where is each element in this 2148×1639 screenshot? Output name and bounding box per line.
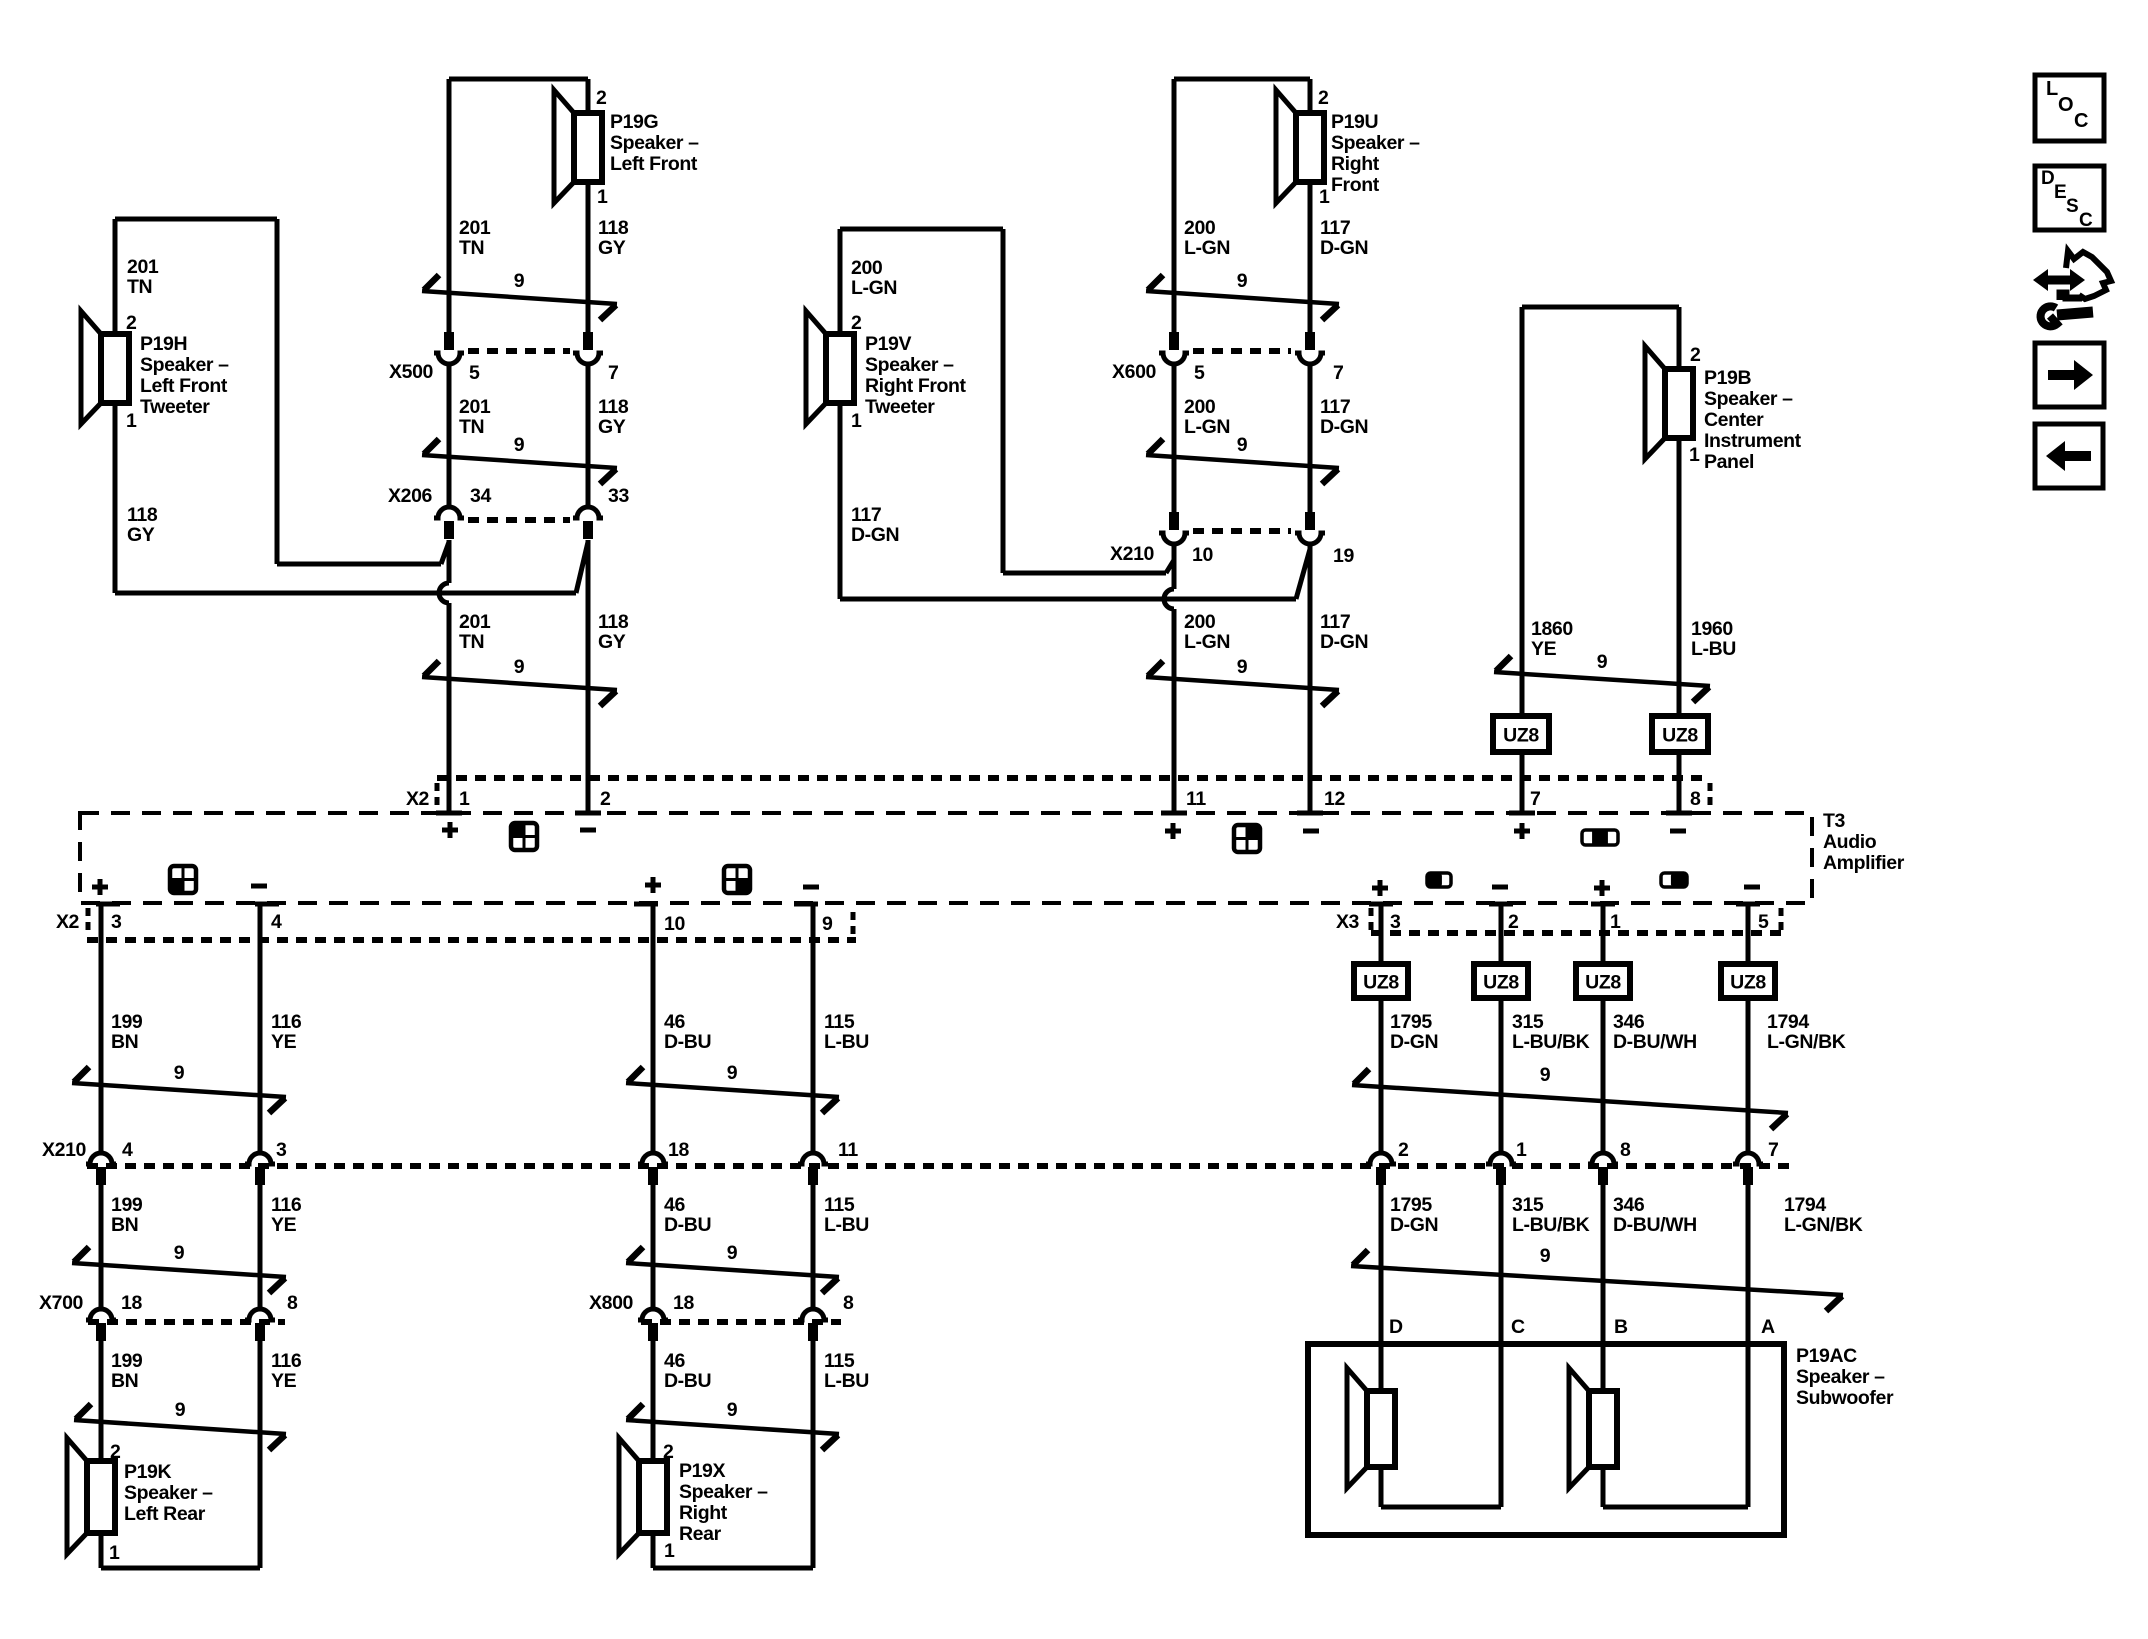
svg-text:TN: TN bbox=[459, 237, 484, 259]
svg-text:9: 9 bbox=[727, 1242, 738, 1264]
svg-text:P19B: P19B bbox=[1704, 367, 1751, 389]
UZ8 option box (315) bbox=[1474, 964, 1528, 998]
wire 199 BN X700-18 to P19K pin2 bbox=[99, 1341, 104, 1461]
back arrow icon box bbox=[2035, 424, 2103, 488]
svg-text:2: 2 bbox=[110, 1441, 121, 1463]
svg-text:9: 9 bbox=[1237, 656, 1248, 678]
svg-text:9: 9 bbox=[174, 1062, 185, 1084]
forward arrow icon box bbox=[2035, 343, 2104, 407]
wire 46 D-BU X210-18 to X800-18 bbox=[651, 1185, 656, 1307]
svg-text:L-BU/BK: L-BU/BK bbox=[1512, 1214, 1590, 1236]
connector X210 pin 10 bbox=[1169, 512, 1179, 530]
wire 1794 L-GN/BK UZ8 to X210-7 bbox=[1746, 998, 1751, 1151]
svg-text:12: 12 bbox=[1324, 788, 1345, 810]
svg-text:18: 18 bbox=[121, 1292, 142, 1314]
svg-text:D-GN: D-GN bbox=[1390, 1031, 1438, 1053]
wire 115 L-BU X2-9 to X210-11 bbox=[811, 903, 816, 1151]
connector X210 pin 19 bbox=[1305, 512, 1315, 530]
svg-text:Right Front: Right Front bbox=[865, 375, 967, 397]
P19K box bottom edge wire bbox=[99, 1533, 104, 1568]
wire 1795 D-GN X3-3 to UZ8 bbox=[1379, 903, 1384, 964]
speaker P19K symbol bbox=[67, 1438, 87, 1554]
svg-text:Speaker –: Speaker – bbox=[679, 1481, 768, 1503]
shield symbol 9 (rear right pair, row A) bbox=[626, 1083, 839, 1097]
wire 201 TN X500-5 to X206-34 bbox=[447, 365, 452, 505]
svg-text:Front: Front bbox=[1331, 174, 1380, 196]
svg-text:201: 201 bbox=[459, 611, 491, 633]
svg-text:X206: X206 bbox=[388, 485, 432, 507]
wire hop over 118 GY line bbox=[439, 583, 449, 603]
UZ8 option box (1860 YE) bbox=[1493, 716, 1549, 752]
wire 201 TN X206-34 down bbox=[447, 540, 452, 583]
X2 connector right end bracket bbox=[1708, 783, 1713, 809]
speaker position icon sub-left bbox=[1427, 873, 1451, 887]
speaker P19X symbol bbox=[619, 1438, 639, 1554]
P19H box right edge bbox=[275, 219, 280, 564]
svg-text:YE: YE bbox=[271, 1214, 297, 1236]
DESC icon box bbox=[2035, 166, 2104, 230]
minus mark X3-2 bbox=[1492, 885, 1508, 890]
svg-text:Amplifier: Amplifier bbox=[1823, 852, 1905, 874]
svg-text:TN: TN bbox=[459, 631, 484, 653]
connector X600 pin 5 bbox=[1169, 332, 1179, 350]
svg-text:4: 4 bbox=[122, 1139, 133, 1161]
svg-text:9: 9 bbox=[1540, 1064, 1551, 1086]
svg-text:X3: X3 bbox=[1336, 911, 1360, 933]
svg-text:7: 7 bbox=[1768, 1139, 1778, 1161]
minus mark X2-8 bbox=[1670, 829, 1686, 834]
svg-text:3: 3 bbox=[1390, 911, 1401, 933]
svg-text:2: 2 bbox=[1318, 87, 1329, 109]
svg-text:L: L bbox=[2046, 78, 2058, 100]
X3 pin serifs bbox=[1369, 902, 1393, 907]
shield symbol 9 (subwoofer wires, row B) bbox=[1351, 1266, 1843, 1295]
svg-text:118: 118 bbox=[598, 217, 629, 239]
svg-text:115: 115 bbox=[824, 1194, 855, 1216]
wire 1794 L-GN/BK X3-5 to UZ8 bbox=[1746, 903, 1751, 964]
connector X206 pin 34 bbox=[434, 507, 464, 518]
svg-text:18: 18 bbox=[668, 1139, 689, 1161]
svg-text:11: 11 bbox=[838, 1139, 858, 1161]
speaker P19U symbol bbox=[1276, 90, 1296, 203]
svg-text:D-BU/WH: D-BU/WH bbox=[1613, 1031, 1697, 1053]
P19B loop top edge bbox=[1522, 305, 1679, 310]
connector X210 pin 7 bbox=[1733, 1153, 1763, 1164]
svg-text:L-BU: L-BU bbox=[824, 1031, 869, 1053]
svg-text:1960: 1960 bbox=[1691, 618, 1733, 640]
plus mark X2-10 bbox=[645, 883, 661, 888]
P19V box top edge bbox=[840, 227, 1003, 232]
svg-text:346: 346 bbox=[1613, 1011, 1645, 1033]
svg-text:D-GN: D-GN bbox=[1320, 631, 1368, 653]
P19G loop top edge (wire) bbox=[449, 77, 588, 82]
X600 connector dotted line bbox=[1193, 348, 1291, 354]
svg-text:9: 9 bbox=[1237, 270, 1248, 292]
wire 201 TN P19G pin2 to X500-5 bbox=[447, 79, 452, 332]
svg-text:118: 118 bbox=[127, 504, 158, 526]
speaker position icon front-right bbox=[1234, 825, 1260, 852]
svg-text:8: 8 bbox=[287, 1292, 298, 1314]
connector X500 pin 7 bbox=[583, 332, 593, 350]
wire 116 YE X700-8 to P19K pin1 bbox=[258, 1341, 263, 1568]
svg-text:46: 46 bbox=[664, 1350, 685, 1372]
minus mark X2-9 bbox=[803, 885, 819, 890]
P19H box left edge / wires bbox=[113, 219, 118, 334]
wire 115 L-BU X210-11 to X800-8 bbox=[811, 1185, 816, 1307]
svg-text:7: 7 bbox=[1333, 362, 1343, 384]
subwoofer coil 2 loop wire bbox=[1601, 1467, 1606, 1507]
svg-text:Speaker –: Speaker – bbox=[124, 1482, 213, 1504]
UZ8 option box (1960 L-BU) bbox=[1652, 716, 1708, 752]
svg-text:YE: YE bbox=[271, 1370, 297, 1392]
wire 115 L-BU X800-8 to P19X pin1 bbox=[811, 1341, 816, 1568]
svg-text:D-BU: D-BU bbox=[664, 1214, 711, 1236]
svg-text:117: 117 bbox=[1320, 611, 1350, 633]
svg-text:1: 1 bbox=[597, 186, 608, 208]
svg-text:1794: 1794 bbox=[1784, 1194, 1826, 1216]
svg-text:L-GN: L-GN bbox=[1184, 237, 1230, 259]
svg-text:Left Front: Left Front bbox=[610, 153, 698, 175]
X2 bottom pin serifs bbox=[96, 902, 120, 907]
svg-text:X700: X700 bbox=[39, 1292, 83, 1314]
svg-text:2: 2 bbox=[600, 788, 611, 810]
svg-text:C: C bbox=[2079, 210, 2093, 231]
svg-text:Subwoofer: Subwoofer bbox=[1796, 1387, 1894, 1409]
svg-text:UZ8: UZ8 bbox=[1503, 725, 1539, 747]
shield symbol 9 (left front pair, lower) bbox=[422, 677, 617, 690]
svg-text:10: 10 bbox=[664, 913, 685, 935]
svg-text:Right: Right bbox=[679, 1502, 728, 1524]
P19V box right edge bbox=[1001, 229, 1006, 573]
svg-text:2: 2 bbox=[126, 312, 137, 334]
svg-text:33: 33 bbox=[608, 485, 629, 507]
svg-text:Speaker –: Speaker – bbox=[1331, 132, 1420, 154]
wire 1960 L-BU UZ8 to X2-8 bbox=[1677, 752, 1682, 813]
shield symbol 9 (rear left pair, row C) bbox=[74, 1420, 286, 1434]
wire 315 L-BU/BK UZ8 to X210-1 bbox=[1499, 998, 1504, 1151]
svg-text:2: 2 bbox=[663, 1441, 674, 1463]
wire 315 L-BU/BK X210-1 to P19AC C bbox=[1499, 1185, 1504, 1344]
svg-text:8: 8 bbox=[1690, 788, 1701, 810]
plus mark X3-3 bbox=[1372, 886, 1388, 891]
svg-text:346: 346 bbox=[1613, 1194, 1645, 1216]
svg-text:Speaker –: Speaker – bbox=[1796, 1366, 1885, 1388]
wire hop over 117 D-GN line bbox=[1164, 589, 1174, 609]
shield symbol 9 (rear right pair, row C) bbox=[626, 1420, 839, 1434]
svg-text:1: 1 bbox=[851, 410, 862, 432]
svg-text:L-GN/BK: L-GN/BK bbox=[1784, 1214, 1863, 1236]
wire 1794 L-GN/BK X210-7 to P19AC A bbox=[1746, 1185, 1751, 1344]
svg-text:D-BU/WH: D-BU/WH bbox=[1613, 1214, 1697, 1236]
shield symbol 9 (subwoofer wires, row A) bbox=[1352, 1085, 1788, 1113]
shield symbol 9 (right front pair, middle) bbox=[1146, 455, 1339, 468]
svg-text:Panel: Panel bbox=[1704, 451, 1754, 473]
svg-text:L-GN: L-GN bbox=[851, 277, 897, 299]
svg-text:117: 117 bbox=[851, 504, 881, 526]
connector X206 pin 33 bbox=[573, 507, 603, 518]
plus mark X2-3 bbox=[92, 885, 108, 890]
svg-text:9: 9 bbox=[514, 270, 525, 292]
svg-text:D-GN: D-GN bbox=[1320, 237, 1368, 259]
P19H box top edge bbox=[115, 217, 277, 222]
wire 346 D-BU/WH UZ8 to X210-8 bbox=[1601, 998, 1606, 1151]
X206 connector dotted line bbox=[468, 517, 570, 523]
X210 upper connector dotted line bbox=[1193, 528, 1291, 534]
svg-text:C: C bbox=[2074, 110, 2088, 132]
speaker position icon rear-left bbox=[170, 866, 196, 893]
svg-text:18: 18 bbox=[673, 1292, 694, 1314]
wire P19V pin1 117 D-GN to X210-19 bbox=[840, 597, 1296, 602]
wire 346 D-BU/WH X3-1 to UZ8 bbox=[1601, 903, 1606, 964]
svg-text:199: 199 bbox=[111, 1011, 143, 1033]
svg-text:UZ8: UZ8 bbox=[1483, 972, 1519, 994]
connector X210 pin 3 bbox=[245, 1153, 275, 1164]
shield symbol 9 (right front pair, lower) bbox=[1146, 677, 1339, 690]
svg-text:D: D bbox=[2041, 168, 2054, 189]
shield symbol 9 (right front pair, upper) bbox=[1146, 291, 1339, 304]
svg-text:1: 1 bbox=[126, 410, 137, 432]
minus mark X2-4 bbox=[251, 884, 267, 889]
svg-text:1795: 1795 bbox=[1390, 1194, 1432, 1216]
wire 200 L-GN X600-5 to X210-10 bbox=[1172, 365, 1177, 512]
svg-text:D-GN: D-GN bbox=[1320, 416, 1368, 438]
svg-text:9: 9 bbox=[175, 1399, 186, 1421]
wire P19H pin1 118 GY to X206-33 bbox=[115, 591, 576, 596]
wire 46 D-BU X800-18 to P19X pin2 bbox=[651, 1341, 656, 1461]
X2 connector left end bracket bbox=[435, 783, 440, 809]
svg-text:Instrument: Instrument bbox=[1704, 430, 1802, 452]
svg-text:X600: X600 bbox=[1112, 361, 1156, 383]
subwoofer voice coil 2 symbol bbox=[1569, 1368, 1589, 1488]
svg-text:BN: BN bbox=[111, 1214, 138, 1236]
X210 lower connector dotted line bbox=[87, 1163, 1795, 1169]
svg-text:X500: X500 bbox=[389, 361, 433, 383]
speaker P19V symbol bbox=[806, 311, 826, 424]
svg-text:L-BU: L-BU bbox=[824, 1370, 869, 1392]
wire 315 L-BU/BK X3-2 to UZ8 bbox=[1499, 903, 1504, 964]
connector X210 pin 1 bbox=[1486, 1153, 1516, 1164]
svg-text:P19V: P19V bbox=[865, 333, 911, 355]
wire 117 D-GN P19U pin1 to X600-7 bbox=[1308, 79, 1313, 332]
svg-text:3: 3 bbox=[111, 911, 122, 933]
svg-text:P19H: P19H bbox=[140, 333, 187, 355]
plus mark X3-1 bbox=[1594, 886, 1610, 891]
svg-text:A: A bbox=[1761, 1316, 1775, 1338]
speaker position icon center bbox=[1582, 830, 1618, 845]
UZ8 option box (346) bbox=[1576, 964, 1630, 998]
svg-text:YE: YE bbox=[1531, 638, 1557, 660]
svg-text:2: 2 bbox=[596, 87, 607, 109]
svg-text:7: 7 bbox=[608, 362, 618, 384]
svg-text:9: 9 bbox=[514, 434, 525, 456]
svg-text:BN: BN bbox=[111, 1370, 138, 1392]
svg-text:1: 1 bbox=[664, 1540, 675, 1562]
svg-text:TN: TN bbox=[127, 276, 152, 298]
wire 46 D-BU X2-10 to X210-18 bbox=[651, 903, 656, 1151]
svg-text:X2: X2 bbox=[406, 788, 430, 810]
svg-text:L-GN: L-GN bbox=[1184, 631, 1230, 653]
svg-text:200: 200 bbox=[1184, 217, 1216, 239]
svg-text:116: 116 bbox=[271, 1350, 302, 1372]
svg-text:UZ8: UZ8 bbox=[1363, 972, 1399, 994]
svg-text:B: B bbox=[1614, 1316, 1628, 1338]
svg-text:Left Rear: Left Rear bbox=[124, 1503, 206, 1525]
svg-text:L-GN: L-GN bbox=[1184, 416, 1230, 438]
svg-text:D-GN: D-GN bbox=[1390, 1214, 1438, 1236]
svg-text:9: 9 bbox=[174, 1242, 185, 1264]
svg-text:5: 5 bbox=[1758, 911, 1769, 933]
svg-text:X210: X210 bbox=[1110, 543, 1154, 565]
svg-text:O: O bbox=[2058, 94, 2073, 116]
svg-text:19: 19 bbox=[1333, 545, 1354, 567]
svg-text:9: 9 bbox=[1597, 651, 1608, 673]
X700 connector dotted line bbox=[88, 1319, 285, 1325]
svg-text:UZ8: UZ8 bbox=[1662, 725, 1698, 747]
speaker position icon rear-right bbox=[724, 866, 750, 893]
svg-text:C: C bbox=[1511, 1316, 1525, 1338]
svg-text:201: 201 bbox=[459, 396, 491, 418]
P19U loop top edge bbox=[1174, 77, 1310, 82]
svg-text:1: 1 bbox=[1689, 444, 1700, 466]
svg-text:200: 200 bbox=[1184, 396, 1216, 418]
subwoofer coil 1 loop wire bbox=[1379, 1467, 1384, 1507]
svg-text:2: 2 bbox=[1690, 344, 1701, 366]
svg-text:9: 9 bbox=[1237, 434, 1248, 456]
svg-text:118: 118 bbox=[598, 611, 629, 633]
svg-text:1: 1 bbox=[1516, 1139, 1527, 1161]
X2 bottom right end bracket bbox=[851, 912, 856, 938]
P19X box bottom edge wire bbox=[651, 1533, 656, 1568]
svg-text:1794: 1794 bbox=[1767, 1011, 1809, 1033]
svg-text:X2: X2 bbox=[56, 911, 80, 933]
svg-text:1795: 1795 bbox=[1390, 1011, 1432, 1033]
T3 Audio Amplifier dashed box bbox=[80, 813, 1812, 903]
svg-text:GY: GY bbox=[127, 524, 155, 546]
wire 199 BN X210-4 to X700-18 bbox=[99, 1185, 104, 1307]
svg-text:Speaker –: Speaker – bbox=[610, 132, 699, 154]
X800 connector dotted line bbox=[641, 1319, 841, 1325]
svg-text:D: D bbox=[1389, 1316, 1403, 1338]
shield symbol 9 (rear left pair, row A) bbox=[72, 1083, 286, 1097]
shield symbol 9 (left front pair, upper) bbox=[422, 291, 617, 304]
speaker position icon front-left bbox=[511, 823, 537, 850]
service doodle icon (double arrow, part outline, wrench) bbox=[2046, 276, 2072, 285]
X2 bottom left end bracket bbox=[86, 908, 91, 934]
speaker P19H symbol bbox=[81, 311, 101, 424]
svg-text:L-GN/BK: L-GN/BK bbox=[1767, 1031, 1846, 1053]
connector X210 pin 11 bbox=[798, 1153, 828, 1164]
minus mark X2-12 bbox=[1303, 829, 1319, 834]
wire 116 YE X2-4 to X210-3 bbox=[258, 903, 263, 1151]
wire 201 TN to X2-1 bbox=[447, 603, 452, 813]
UZ8 option box (1794) bbox=[1721, 964, 1775, 998]
connector X800 pin 18 bbox=[638, 1309, 668, 1320]
plus mark X2-11 bbox=[1165, 829, 1181, 834]
svg-text:115: 115 bbox=[824, 1011, 855, 1033]
UZ8 option box (1795) bbox=[1354, 964, 1408, 998]
svg-text:Speaker –: Speaker – bbox=[1704, 388, 1793, 410]
wire B into subwoofer coil 2 bbox=[1601, 1344, 1606, 1391]
svg-text:34: 34 bbox=[470, 485, 491, 507]
svg-text:116: 116 bbox=[271, 1011, 302, 1033]
svg-text:TN: TN bbox=[459, 416, 484, 438]
svg-text:200: 200 bbox=[1184, 611, 1216, 633]
connector X700 pin 18 bbox=[86, 1309, 116, 1320]
svg-text:46: 46 bbox=[664, 1194, 685, 1216]
wire 118 GY X206-33 to X2-2 bbox=[586, 540, 591, 813]
svg-text:9: 9 bbox=[727, 1062, 738, 1084]
svg-text:199: 199 bbox=[111, 1194, 143, 1216]
plus mark X2-7 bbox=[1514, 829, 1530, 834]
svg-text:46: 46 bbox=[664, 1011, 685, 1033]
svg-text:10: 10 bbox=[1192, 544, 1213, 566]
svg-text:GY: GY bbox=[598, 631, 626, 653]
svg-text:L-BU/BK: L-BU/BK bbox=[1512, 1031, 1590, 1053]
svg-text:L-BU: L-BU bbox=[1691, 638, 1736, 660]
svg-text:3: 3 bbox=[276, 1139, 287, 1161]
svg-text:9: 9 bbox=[1540, 1245, 1551, 1267]
svg-text:7: 7 bbox=[1530, 788, 1540, 810]
connector X210 pin 4 bbox=[86, 1153, 116, 1164]
svg-text:T3: T3 bbox=[1823, 810, 1846, 832]
svg-text:Right: Right bbox=[1331, 153, 1380, 175]
svg-text:D-BU: D-BU bbox=[664, 1031, 711, 1053]
svg-text:UZ8: UZ8 bbox=[1585, 972, 1621, 994]
svg-text:9: 9 bbox=[514, 656, 525, 678]
svg-text:117: 117 bbox=[1320, 217, 1350, 239]
svg-text:1: 1 bbox=[1610, 911, 1621, 933]
connector X210 pin 8 bbox=[1588, 1153, 1618, 1164]
X2 connector dotted line (top) bbox=[437, 775, 1710, 781]
connector X600 pin 7 bbox=[1305, 332, 1315, 350]
svg-text:116: 116 bbox=[271, 1194, 302, 1216]
connector X800 pin 8 bbox=[798, 1309, 828, 1320]
svg-text:P19U: P19U bbox=[1331, 111, 1378, 133]
shield symbol 9 (center speaker pair) bbox=[1494, 672, 1710, 686]
svg-text:Center: Center bbox=[1704, 409, 1764, 431]
wire 118 GY X500-7 to X206-33 bbox=[586, 365, 591, 505]
svg-text:5: 5 bbox=[1194, 362, 1205, 384]
svg-text:118: 118 bbox=[598, 396, 629, 418]
wire 1860 YE P19B pin2 to UZ8 bbox=[1520, 307, 1525, 716]
svg-text:1: 1 bbox=[109, 1542, 120, 1564]
svg-text:P19X: P19X bbox=[679, 1460, 725, 1482]
wire D into subwoofer coil 1 bbox=[1379, 1344, 1384, 1391]
svg-text:E: E bbox=[2054, 182, 2066, 203]
svg-text:201: 201 bbox=[459, 217, 491, 239]
svg-text:P19AC: P19AC bbox=[1796, 1345, 1857, 1367]
connector X500 pin 5 bbox=[444, 332, 454, 350]
wire 1860 YE UZ8 to X2-7 bbox=[1520, 752, 1525, 813]
svg-text:Audio: Audio bbox=[1823, 831, 1877, 853]
svg-text:2: 2 bbox=[1398, 1139, 1409, 1161]
speaker position icon sub-right bbox=[1661, 873, 1687, 887]
svg-text:1860: 1860 bbox=[1531, 618, 1573, 640]
svg-text:Tweeter: Tweeter bbox=[865, 396, 935, 418]
shield symbol 9 (rear right pair, row B) bbox=[626, 1263, 839, 1277]
svg-text:X210: X210 bbox=[42, 1139, 86, 1161]
X2 pin serifs bbox=[436, 811, 462, 816]
svg-text:201: 201 bbox=[127, 256, 159, 278]
wire 117 D-GN X210-19 to X2-12 bbox=[1308, 545, 1313, 813]
shield symbol 9 (rear left pair, row B) bbox=[72, 1263, 286, 1277]
svg-text:Speaker –: Speaker – bbox=[140, 354, 229, 376]
svg-text:200: 200 bbox=[851, 257, 883, 279]
svg-text:11: 11 bbox=[1186, 788, 1206, 810]
wire 199 BN X2-3 to X210-4 bbox=[99, 903, 104, 1151]
wire 1795 D-GN X210-2 to P19AC D bbox=[1379, 1185, 1384, 1344]
X2 connector dotted line (bottom) bbox=[87, 937, 856, 943]
